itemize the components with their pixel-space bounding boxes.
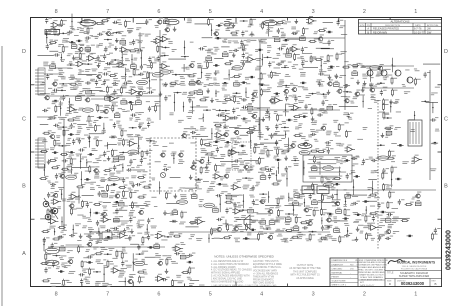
value label — [262, 199, 266, 202]
value label — [275, 197, 280, 200]
value label — [147, 163, 151, 166]
capacitor C440 — [190, 130, 198, 134]
value label — [229, 99, 234, 102]
value label — [145, 204, 150, 207]
value label — [379, 111, 385, 114]
value label — [122, 85, 128, 88]
value label — [264, 232, 267, 235]
value label — [178, 120, 184, 123]
resistor R849 — [309, 233, 315, 241]
capacitor C670 — [331, 194, 338, 200]
ground — [223, 124, 227, 129]
schematic p/n box — [303, 155, 352, 182]
capacitor C721 — [115, 208, 122, 214]
diode CR164 — [213, 64, 219, 66]
capacitor C12 — [145, 19, 152, 25]
wire — [44, 164, 45, 176]
wire — [202, 37, 213, 39]
wire junction — [58, 90, 66, 92]
value label — [277, 228, 281, 231]
value label — [109, 173, 115, 176]
value label — [344, 85, 351, 88]
value label — [248, 178, 254, 181]
value label — [435, 129, 440, 132]
value label — [213, 144, 218, 147]
resistor R82 — [309, 39, 318, 43]
value label — [58, 117, 64, 120]
value label — [104, 116, 108, 119]
potentiometer VR243 — [234, 81, 240, 87]
diode CR719 — [93, 212, 99, 214]
capacitor C398 — [430, 117, 438, 121]
capacitor C535 — [192, 160, 199, 166]
wire — [60, 101, 61, 116]
notes block — [211, 255, 282, 288]
transistor Q286 — [283, 87, 289, 94]
op-amp U119 — [86, 54, 97, 62]
resistor R874 — [45, 253, 51, 261]
resistor R209 — [270, 71, 276, 79]
capacitor C383 — [232, 115, 240, 119]
wire junction — [136, 253, 144, 255]
value label — [170, 84, 176, 87]
value label — [351, 170, 356, 173]
ground — [206, 88, 210, 93]
value label — [146, 100, 150, 103]
value label — [257, 107, 260, 110]
value label — [61, 199, 66, 202]
value label — [334, 74, 337, 77]
value label — [88, 227, 94, 231]
resistor R118 — [79, 52, 85, 60]
transistor Q800 — [216, 225, 222, 232]
capacitor C824 — [69, 233, 77, 237]
ground — [138, 124, 142, 129]
value label — [388, 224, 394, 227]
value label — [122, 109, 128, 112]
resistor R87 — [62, 45, 68, 53]
svg-text:FULLERTON, CALIFORNIA: FULLERTON, CALIFORNIA — [401, 267, 428, 270]
value label — [206, 78, 212, 81]
diode CR491 — [52, 151, 58, 153]
value label — [66, 40, 70, 43]
value label — [291, 27, 296, 30]
value label — [295, 127, 299, 130]
value label — [315, 57, 320, 60]
resistor R780 — [365, 215, 371, 223]
resistor R925 — [139, 276, 145, 284]
resistor R623 — [118, 185, 127, 189]
resistor R336 — [55, 105, 61, 113]
transistor Q899 — [157, 259, 163, 266]
transistor Q282 — [251, 90, 257, 97]
value label — [163, 164, 167, 167]
capacitor C229 — [103, 79, 110, 85]
value label — [138, 87, 144, 90]
svg-text:6-7-76: 6-7-76 — [414, 27, 422, 31]
value label — [341, 51, 347, 54]
resistor R372 — [67, 117, 76, 121]
value label — [58, 68, 63, 71]
value label — [168, 233, 174, 236]
capacitor C644 — [47, 192, 54, 198]
ground — [97, 63, 101, 68]
diode CR488 — [397, 144, 403, 146]
value label — [137, 51, 143, 54]
op-amp U28 — [306, 16, 317, 24]
value label — [118, 66, 124, 69]
capacitor C30 — [337, 20, 344, 26]
potentiometer VR581 — [311, 165, 317, 171]
value label — [247, 170, 253, 173]
value label — [269, 19, 273, 22]
op-amp U70 — [160, 34, 171, 42]
control label oval 233 — [137, 80, 148, 84]
value label — [82, 216, 87, 219]
resistor R3 — [61, 19, 67, 27]
wire — [225, 194, 242, 196]
value label — [83, 25, 86, 28]
value label — [326, 131, 332, 136]
capacitor C707 — [352, 201, 360, 205]
value label — [343, 112, 348, 115]
resistor R468 — [122, 138, 128, 146]
wire — [257, 213, 268, 215]
value label — [155, 253, 161, 257]
value label — [113, 78, 118, 81]
value label — [98, 61, 105, 64]
value label — [74, 173, 79, 176]
capacitor C757 — [129, 217, 136, 223]
wire — [159, 30, 161, 120]
wire — [235, 127, 255, 129]
value label — [205, 49, 211, 52]
transistor Q425 — [320, 124, 326, 131]
value label — [317, 162, 321, 165]
potentiometer VR529 — [113, 156, 119, 162]
value label — [127, 230, 133, 233]
value label — [323, 213, 330, 216]
value label — [110, 61, 114, 64]
resistor R330 — [383, 98, 389, 106]
capacitor C502 — [146, 150, 153, 156]
value label — [224, 95, 230, 98]
capacitor C549 — [351, 156, 359, 160]
value label — [88, 124, 94, 129]
value label — [138, 40, 143, 43]
value label — [163, 212, 169, 215]
wire — [214, 157, 224, 159]
value label — [121, 197, 127, 200]
potentiometer VR147 — [50, 63, 56, 69]
value label — [187, 19, 192, 24]
connector P1 — [35, 68, 45, 95]
wire — [236, 219, 252, 221]
wire — [278, 162, 279, 174]
wire — [244, 160, 259, 162]
value label — [274, 67, 281, 70]
value label — [288, 61, 292, 64]
value label — [363, 77, 367, 80]
wire — [259, 40, 261, 140]
resistor R912 — [137, 269, 146, 273]
wire — [269, 113, 270, 121]
capacitor C869 — [137, 244, 144, 250]
op-amp U159 — [159, 61, 170, 69]
diode CR493 — [68, 151, 74, 153]
value label — [223, 222, 229, 225]
transistor Q589 — [59, 172, 65, 179]
wire — [362, 95, 363, 107]
wire — [220, 160, 236, 162]
wire — [285, 131, 286, 138]
capacitor C407 — [113, 122, 120, 128]
transistor Q181 — [377, 64, 383, 71]
value label — [409, 118, 415, 121]
value label — [274, 111, 278, 114]
capacitor C173 — [301, 61, 308, 67]
value label — [220, 164, 225, 167]
svg-text:2: 2 — [363, 292, 366, 298]
wire — [344, 20, 346, 110]
capacitor C354 — [232, 108, 239, 114]
capacitor C820 — [434, 228, 441, 234]
value label — [94, 174, 99, 179]
value label — [129, 274, 136, 277]
value label — [67, 250, 73, 253]
value label — [67, 199, 74, 202]
value label — [308, 135, 314, 138]
capacitor C540 — [234, 158, 242, 162]
resistor R717 — [71, 207, 77, 215]
control label oval 898 — [134, 261, 145, 265]
wire — [372, 181, 373, 197]
value label — [260, 150, 266, 155]
value label — [240, 60, 245, 63]
value label — [314, 120, 317, 123]
capacitor C585 — [382, 168, 389, 174]
value label — [319, 156, 323, 159]
capacitor C191 — [103, 71, 111, 75]
value label — [58, 44, 64, 47]
value label — [242, 119, 246, 122]
wire junction — [216, 109, 224, 111]
value label — [370, 212, 375, 215]
capacitor C170 — [276, 61, 284, 65]
wire — [44, 73, 62, 75]
value label — [162, 52, 166, 55]
capacitor C195 — [138, 71, 146, 75]
diode CR622 — [111, 183, 117, 185]
wire — [331, 220, 348, 222]
resistor R654 — [130, 191, 136, 199]
capacitor C62 — [85, 35, 93, 39]
op-amp U322 — [272, 96, 283, 104]
value label — [261, 39, 267, 44]
value label — [68, 271, 75, 274]
wire — [86, 159, 87, 167]
wire — [211, 128, 212, 139]
capacitor C856 — [378, 235, 385, 241]
capacitor C271 — [148, 89, 156, 93]
value label — [107, 284, 112, 287]
value label — [232, 202, 236, 205]
wire — [166, 202, 179, 204]
svg-text:6: 6 — [157, 9, 160, 15]
value label — [232, 195, 237, 198]
resistor R22 — [250, 18, 256, 26]
input jack J2 oval — [45, 260, 59, 266]
potentiometer VR771 — [285, 216, 291, 222]
value label — [98, 43, 103, 46]
value label — [298, 237, 303, 240]
svg-text:6: 6 — [157, 292, 160, 298]
value label — [125, 91, 131, 94]
diode CR375 — [97, 116, 103, 118]
value label — [384, 232, 389, 235]
value label — [379, 234, 385, 237]
wire — [46, 32, 47, 44]
value label — [103, 258, 106, 261]
resistor R637 — [312, 183, 318, 191]
value label — [161, 239, 167, 242]
value label — [95, 103, 99, 106]
value label — [135, 74, 141, 77]
value label — [259, 136, 263, 139]
value label — [58, 72, 64, 77]
value label — [47, 215, 53, 218]
wire — [192, 135, 208, 137]
potentiometer VR755 — [114, 216, 120, 222]
value label — [255, 162, 260, 165]
wire — [215, 37, 345, 39]
value label — [339, 144, 344, 147]
value label — [207, 138, 213, 141]
value label — [236, 137, 241, 140]
value label — [84, 277, 90, 280]
value label — [327, 68, 333, 71]
value label — [108, 248, 114, 251]
op-amp U554 — [412, 155, 423, 163]
value label — [169, 187, 173, 190]
capacitor C319 — [241, 97, 249, 101]
value label — [215, 99, 221, 102]
value label — [111, 136, 116, 139]
value label — [185, 133, 190, 136]
value label — [85, 280, 90, 285]
potentiometer VR530 — [119, 154, 125, 160]
diode CR79 — [283, 39, 289, 41]
svg-text:MUSICAL INSTRUMENTS: MUSICAL INSTRUMENTS — [397, 261, 435, 265]
diode CR893 — [86, 261, 92, 263]
wire — [125, 277, 126, 285]
value label — [254, 211, 258, 214]
value label — [119, 271, 125, 274]
value label — [75, 116, 81, 119]
value label — [290, 83, 294, 86]
value label — [75, 223, 81, 226]
wire — [300, 189, 436, 191]
value label — [230, 151, 235, 154]
wire — [48, 95, 160, 97]
value label — [301, 151, 306, 154]
value label — [95, 158, 101, 161]
value label — [314, 206, 318, 209]
resistor R158 — [150, 61, 156, 69]
value label — [237, 83, 241, 86]
op-amp U110 — [290, 44, 301, 52]
value label — [232, 41, 239, 44]
capacitor C518 — [327, 148, 334, 154]
value label — [93, 137, 99, 140]
speaker LS1 — [244, 215, 250, 229]
wire — [339, 167, 340, 177]
value label — [252, 220, 258, 223]
value label — [61, 284, 65, 287]
op-amp U155 — [116, 60, 127, 68]
value label — [376, 72, 382, 77]
op-amp U633 — [231, 183, 242, 191]
wire — [66, 244, 82, 246]
value label — [116, 95, 122, 98]
wire — [63, 120, 65, 230]
value label — [305, 239, 310, 242]
value label — [101, 130, 106, 133]
value label — [327, 196, 334, 199]
value label — [230, 76, 233, 79]
diode CR548 — [344, 159, 350, 161]
value label — [280, 61, 286, 64]
value label — [274, 73, 280, 76]
value label — [393, 101, 399, 104]
diode CR828 — [105, 236, 111, 238]
control label oval 515 — [299, 151, 310, 155]
wire — [40, 218, 49, 220]
value label — [220, 178, 224, 181]
diode CR285 — [274, 93, 280, 95]
wire junction — [203, 109, 211, 111]
value label — [281, 152, 287, 155]
potentiometer VR726 — [172, 209, 178, 215]
value label — [169, 113, 173, 116]
control label oval 690 — [204, 203, 215, 207]
capacitor C781 — [372, 216, 379, 222]
wire — [208, 156, 209, 164]
value label — [48, 31, 52, 34]
value label — [319, 109, 325, 112]
value label — [249, 34, 255, 37]
svg-text:5: 5 — [209, 292, 212, 298]
value label — [393, 217, 399, 220]
value label — [207, 190, 212, 193]
wire junction — [164, 236, 172, 238]
value label — [116, 171, 122, 174]
wire — [133, 253, 134, 271]
value label — [190, 127, 194, 130]
resistor R362 — [311, 107, 317, 115]
op-amp U443 — [214, 131, 225, 139]
wire junction — [233, 92, 241, 94]
transistor Q819 — [385, 227, 391, 234]
svg-text:TAKEN WITH VTVM: TAKEN WITH VTVM — [253, 276, 274, 279]
ground — [250, 32, 254, 37]
wire — [203, 114, 204, 122]
resistor R390 — [293, 114, 302, 118]
svg-text:AS NOTED PER AT THE TIME: AS NOTED PER AT THE TIME — [289, 267, 321, 270]
wire — [250, 133, 251, 148]
potentiometer VR809 — [293, 225, 299, 231]
resistor R859 — [431, 233, 437, 241]
